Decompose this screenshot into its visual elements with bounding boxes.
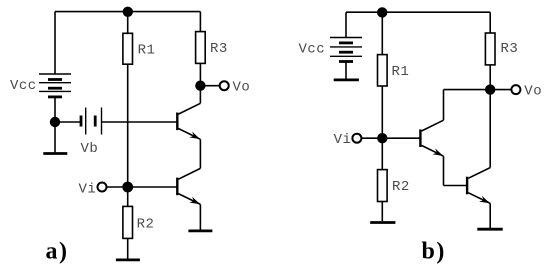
wire R2 bottom a (127, 238, 129, 258)
wire top rail circuit a (55, 11, 200, 13)
svg-text:Vo: Vo (524, 83, 542, 99)
resistor R1 a (123, 33, 133, 64)
svg-text:Vi: Vi (334, 132, 352, 148)
battery Vcc a (39, 74, 71, 97)
wire Q2 emitter down b (489, 203, 491, 228)
wire Q1 emitter to Q2 base b (444, 185, 467, 187)
svg-text:R1: R1 (138, 43, 156, 59)
transistor Q2 b (467, 168, 490, 204)
node junction top rail b (378, 8, 387, 17)
svg-text:Vi: Vi (79, 181, 97, 197)
node Vi junction a (123, 182, 132, 191)
wire R3 bottom to Vo node a (199, 63, 201, 85)
battery Vcc b (330, 38, 362, 62)
svg-text:Vcc: Vcc (10, 78, 37, 94)
transistor Q2 a (177, 168, 200, 204)
resistor R2 a (123, 206, 133, 238)
wire Vi to Q2 base a (107, 186, 178, 188)
svg-text:Vb: Vb (81, 141, 99, 157)
resistor R2 b (378, 170, 388, 202)
wire Vb to Q1 base a (102, 121, 178, 123)
node junction top rail a (123, 7, 132, 16)
wire Q1 collector up b (443, 90, 445, 121)
wire Vo node to terminal a (200, 85, 219, 87)
ground under Q2 a (188, 229, 212, 232)
wire rail to R3 a (199, 12, 201, 32)
wire Vcc top a (54, 12, 56, 74)
terminal Vi b (352, 134, 361, 143)
svg-text:Vo: Vo (233, 79, 251, 95)
wire Q2 collector to Vo node b (489, 90, 491, 168)
resistor R3 b (485, 33, 495, 65)
battery Vb a (81, 108, 102, 135)
terminal Vi a (98, 183, 107, 192)
wire R1 bottom to R2 top a (127, 64, 129, 206)
wire R2 bottom b (381, 202, 383, 222)
ground under Vcc a (43, 152, 67, 155)
svg-text:R2: R2 (392, 179, 410, 195)
svg-text:R2: R2 (137, 216, 155, 232)
node Vo junction b (486, 85, 495, 94)
wire R1 bottom to R2 top b (381, 86, 383, 170)
resistor R3 a (196, 32, 206, 64)
resistor R1 b (378, 55, 388, 86)
wire Q1 collector to Vo node a (199, 86, 201, 104)
transistor Q1 a (177, 103, 200, 139)
ground under R2 a (116, 258, 140, 261)
node Vi junction b (378, 134, 387, 143)
svg-text:R1: R1 (392, 64, 410, 80)
wire Q1 emitter to Q2 collector a (199, 139, 201, 168)
wire top rail circuit b (346, 11, 490, 13)
wire R3 bottom to Vo node b (489, 65, 491, 90)
transistor Q1 b (420, 120, 443, 156)
terminal Vo a (220, 81, 229, 90)
wire Vcc top b (345, 12, 347, 37)
wire Vcc bottom b (345, 62, 347, 79)
wire Q2 emitter down a (199, 204, 201, 229)
wire Vcc bottom a (54, 97, 56, 152)
svg-text:R3: R3 (501, 41, 519, 57)
wire dot to Vb battery a (55, 121, 80, 123)
wire Q1 collector to Vo node b (444, 89, 491, 91)
wire Q1 emitter down b (443, 156, 445, 185)
ground under Vcc b (334, 79, 359, 82)
wire rail to R1 a (127, 12, 129, 34)
svg-text:a): a) (46, 238, 69, 264)
ground under R2 b (370, 221, 395, 224)
wire Vi to Q1 base b (361, 137, 420, 139)
wire rail to R3 b (489, 12, 491, 33)
node Vcc-Vb junction a (51, 118, 60, 127)
node Vo junction a (196, 81, 205, 90)
svg-text:R3: R3 (210, 41, 228, 57)
svg-text:Vcc: Vcc (299, 42, 326, 58)
svg-text:b): b) (422, 238, 446, 264)
wire Vo node to terminal b (490, 89, 511, 91)
terminal Vo b (511, 85, 520, 94)
wire rail to R1 b (381, 12, 383, 54)
ground under Q2 b (477, 228, 502, 231)
